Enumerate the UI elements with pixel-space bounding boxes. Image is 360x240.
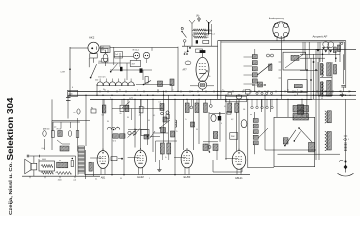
svg-text:ca 1: ca 1 [212,34,216,36]
svg-text:0,1: 0,1 [153,115,155,117]
svg-text:0,1: 0,1 [104,89,106,91]
svg-text:600: 600 [99,61,102,63]
svg-text:2000: 2000 [58,179,62,181]
svg-text:50: 50 [120,178,122,180]
svg-text:30: 30 [107,121,109,123]
svg-text:Amperit AF: Amperit AF [313,34,328,38]
svg-text:0,2: 0,2 [131,98,133,100]
svg-text:0,2: 0,2 [231,119,233,121]
svg-text:0,1: 0,1 [243,89,245,91]
svg-text:EBL21: EBL21 [235,177,243,180]
svg-text:0,5: 0,5 [159,102,161,104]
svg-text:4u: 4u [120,113,122,115]
svg-text:5000: 5000 [69,94,73,96]
svg-text:5: 5 [348,139,349,141]
svg-text:30: 30 [287,89,289,91]
svg-text:uu: uu [59,160,61,162]
svg-text:W 1/4+2: W 1/4+2 [133,49,139,51]
svg-text:AF7: AF7 [183,69,188,72]
svg-text:W12: W12 [102,50,106,52]
svg-text:Anodenspannung: Anodenspannung [269,17,284,20]
svg-text:WW: WW [231,136,235,138]
svg-text:0,1: 0,1 [95,179,97,181]
svg-text:50: 50 [148,120,150,122]
svg-text:50: 50 [209,76,211,78]
svg-text:0,1: 0,1 [224,106,226,108]
svg-text:Hp: Hp [91,107,93,109]
svg-text:Selektion 304: Selektion 304 [6,97,15,161]
svg-text:4000: 4000 [42,159,46,161]
svg-text:W 1/47: W 1/47 [57,128,62,130]
svg-text:Czeija, Nissl u. Co.: Czeija, Nissl u. Co. [8,161,14,215]
svg-text:4nF: 4nF [101,47,104,49]
svg-text:0,5: 0,5 [157,89,159,91]
svg-text:1,5H: 1,5H [60,72,65,74]
svg-text:6,3: 6,3 [321,98,323,100]
svg-text:40: 40 [38,160,40,162]
svg-text:6: 6 [72,87,73,89]
svg-text:c=: c= [74,112,76,114]
svg-text:AB1: AB1 [101,177,106,180]
svg-text:EL4M: EL4M [137,176,143,179]
svg-text:4/17: 4/17 [132,64,136,66]
svg-text:5: 5 [117,127,118,129]
svg-text:uu4: uu4 [73,179,76,181]
svg-text:uu: uu [250,114,252,116]
svg-text:50: 50 [119,89,121,91]
svg-text:1uF: 1uF [115,54,118,56]
svg-text:(A): (A) [196,15,200,18]
svg-text:W: W [181,28,183,30]
svg-text:50: 50 [196,129,198,131]
svg-text:1: 1 [149,178,150,180]
svg-text:4u: 4u [139,115,141,117]
svg-text:220: 220 [95,80,98,82]
svg-text:30: 30 [127,117,129,119]
svg-text:200: 200 [210,31,213,33]
svg-text:4: 4 [221,123,222,125]
svg-text:AK2: AK2 [89,36,95,40]
svg-text:EL/BF: EL/BF [184,176,191,179]
svg-text:5 50 5 50 5: 5 50 5 50 5 [98,77,106,79]
